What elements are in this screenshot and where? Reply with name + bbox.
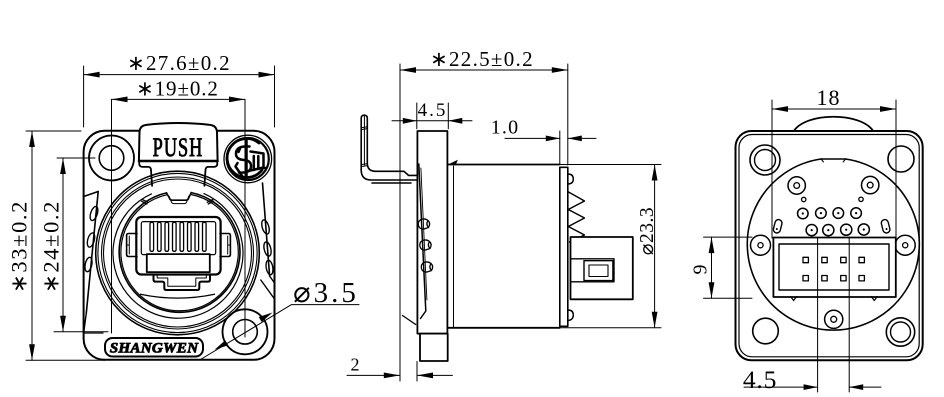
dim 9 line: [711, 237, 713, 298]
mounting hole bottom-right outer: [223, 309, 268, 354]
push tab bottom edge: [139, 160, 218, 162]
hook bar: [361, 115, 367, 170]
svg-text:∗22.5±0.2: ∗22.5±0.2: [430, 47, 534, 71]
svg-text:PUSH: PUSH: [153, 133, 204, 162]
dim 2 ext lines: [416, 362, 418, 382]
rj45 jack outer body: [136, 217, 220, 275]
rear block plug box: [584, 261, 613, 281]
rj45 pins: [150, 222, 206, 251]
rj45 lower face: [147, 254, 210, 272]
dim *22.5 line: [400, 69, 568, 71]
dim 1.0 ext left: [559, 131, 561, 164]
svg-text:9: 9: [690, 265, 712, 275]
svg-text:4.5: 4.5: [743, 365, 777, 394]
block bottom tick right: [871, 297, 877, 301]
body rear plate: [560, 167, 568, 326]
dim *22.5 / 2 ext left: [399, 64, 401, 381]
idc block inner: [779, 244, 889, 290]
push tab left arm: [139, 161, 152, 186]
arrow 22.5 left: [400, 67, 416, 73]
right wing diagonal: [263, 183, 270, 276]
arrow dia23.3 top: [652, 165, 658, 181]
bayonet notch inner line: [169, 196, 189, 204]
mounting hole top-left inner: [99, 146, 124, 171]
rear tiny circle right: [859, 197, 863, 201]
dim *19 line: [112, 98, 246, 100]
arrow 19 right: [229, 97, 245, 103]
dim *27.6 ext lines: [84, 66, 275, 127]
logo inner arc: [227, 139, 262, 178]
bayonet top notch: [167, 193, 192, 201]
flange bottom-left shoulder line: [84, 332, 104, 334]
rear tiny circle left: [802, 197, 806, 201]
dim *19 ext left through hole: [111, 99, 113, 333]
left rib 3: [84, 257, 93, 273]
hook bar ticks: [361, 127, 367, 167]
arrow 4.5r left: [804, 384, 818, 390]
plate inner slant lever: [419, 164, 426, 319]
dim 9 ext lines: [704, 237, 753, 298]
arrow 24 top: [60, 158, 66, 174]
bezel circle outer: [96, 171, 260, 335]
rj45 right latch slot: [228, 236, 231, 254]
dim *33 line: [31, 131, 33, 360]
left rib 1: [89, 206, 100, 222]
right rib 2: [263, 241, 273, 257]
right rib 1: [260, 219, 270, 235]
bayonet shell outer rim: [119, 193, 240, 313]
arrow 18 right: [880, 106, 896, 112]
plate rib 3: [421, 262, 432, 272]
arrow dia3.5 lower: [215, 340, 229, 350]
dim *24 ext lines: [54, 158, 108, 332]
dim 4.5 line: [392, 120, 472, 122]
arrow 27.6 right: [259, 72, 275, 78]
push tab right arm: [204, 161, 217, 186]
rear dome: [794, 117, 873, 131]
flange plate side: [417, 131, 447, 334]
rear hole top-left outer: [750, 145, 780, 175]
dim 1.0 line: [505, 137, 596, 139]
rear plate bottom bump: [568, 310, 574, 321]
push tab body: [139, 123, 218, 161]
plate rib 2: [420, 240, 431, 250]
block bottom tick left: [791, 297, 797, 301]
bayonet shell inner rim: [121, 194, 238, 310]
spring zigzag: [568, 192, 584, 242]
idc block outer: [773, 238, 895, 298]
idc pin squares row 2: [803, 276, 808, 281]
arrow 4.5 left: [403, 118, 417, 124]
dim *24 line: [62, 158, 64, 332]
plate bottom tab: [420, 334, 448, 361]
rear big circle flat notches: [821, 159, 846, 162]
rear hole top-left inner: [755, 150, 776, 171]
svg-text:⌀3.5: ⌀3.5: [293, 277, 359, 309]
dim 4.5 rear ext lines: [818, 238, 850, 393]
PUSH text: [153, 133, 204, 162]
rear screw right: [862, 176, 879, 193]
right slot oval: [881, 219, 891, 234]
left wing top edge: [84, 192, 99, 197]
rj45 bottom notch: [154, 275, 211, 291]
bezel circle outer inner line: [98, 173, 257, 332]
plate rib 1: [418, 219, 429, 229]
hook bend and leg: [361, 163, 417, 183]
svg-text:2: 2: [351, 355, 360, 375]
rj45 jack inner opening: [141, 222, 215, 255]
leader dia3.5: [201, 305, 360, 360]
rear big circle top flat: [821, 158, 846, 160]
arrow 9 top: [709, 237, 715, 253]
arrow 4.5 right: [448, 118, 462, 124]
logo ring: [227, 138, 269, 180]
svg-text:1.0: 1.0: [491, 117, 520, 139]
rear hole bottom-right outer: [886, 318, 914, 346]
arrow 2 right: [417, 373, 433, 379]
hook bar inner line: [363, 116, 365, 165]
rear plate top bump: [568, 174, 574, 184]
left slot oval: [773, 219, 783, 234]
mounting hole bottom-right inner: [233, 320, 258, 345]
rear screw left: [788, 177, 805, 194]
rear connector block side: [571, 237, 633, 299]
left rib 2: [86, 232, 96, 248]
arrow 4.5r right: [849, 384, 863, 390]
dim 4.5 ext lines: [417, 103, 449, 129]
svg-text:∗33±0.2: ∗33±0.2: [7, 200, 32, 293]
arrow 1.0 left: [546, 136, 560, 142]
rear big circle: [747, 159, 919, 330]
rear bottom screw: [825, 310, 843, 328]
idc pin squares row 1: [803, 257, 864, 281]
svg-text:∗27.6±0.2: ∗27.6±0.2: [127, 51, 231, 75]
pin dots row A: [802, 212, 865, 231]
flange outline front: [84, 131, 275, 360]
body cylinder: [447, 165, 559, 328]
pin circle row B: [806, 225, 817, 236]
svg-text:⌀23.3: ⌀23.3: [637, 207, 658, 255]
arrow 18 left: [772, 106, 788, 112]
body front face line: [453, 166, 455, 327]
dim 2 lines: [347, 374, 452, 376]
body top-left mini arrow: [449, 160, 458, 165]
dim dia23.3 ext lines: [560, 165, 661, 328]
dim *33 ext lines: [26, 131, 105, 360]
arrow 22.5 right: [552, 67, 568, 73]
bayonet left step: [142, 200, 148, 205]
plate inner slant lever second line: [421, 168, 427, 300]
right wing bottom chamfer: [261, 276, 275, 299]
arrow 33 top: [29, 131, 35, 147]
rear side screw left: [751, 235, 771, 255]
rj45 left latch slot: [127, 236, 130, 254]
right rib 3: [265, 260, 274, 276]
mounting hole top-left outer: [89, 136, 134, 181]
svg-text:∗24±0.2: ∗24±0.2: [39, 200, 64, 293]
rj45 left latch: [127, 234, 137, 257]
svg-text:∗19±0.2: ∗19±0.2: [136, 76, 219, 100]
dim dia23.3 line: [654, 165, 656, 328]
left wing diagonal: [86, 192, 98, 314]
svg-text:18: 18: [817, 85, 841, 110]
pin circle row A1: [798, 208, 870, 236]
arrow 19 left: [112, 97, 128, 103]
bayonet right step: [207, 200, 213, 205]
rear hole top-right: [888, 146, 914, 172]
rear block inner step: [571, 259, 615, 282]
label plate SHANGWEN: [105, 338, 203, 357]
svg-text:4.5: 4.5: [418, 100, 448, 121]
dim 4.5 rear line: [744, 386, 881, 388]
arrow dia3.5 upper: [259, 313, 273, 323]
arrow dia23.3 bottom: [652, 312, 658, 328]
rear side screw right: [895, 235, 915, 255]
dim 18 ext lines: [772, 100, 896, 238]
rear block plug box inner: [589, 265, 608, 277]
dim *19 ext right through logo: [244, 99, 246, 337]
bezel circle third (arc): [113, 194, 243, 319]
shell bottom flat arc: [141, 294, 215, 298]
arrow 27.6 left: [84, 72, 100, 78]
bezel ring second inner: [104, 179, 252, 327]
arrow 1.0 right: [568, 136, 582, 142]
dim *22.5 ext right: [567, 64, 569, 165]
rj45 bottom notch inner line: [157, 276, 206, 287]
arrow 24 bottom: [60, 316, 66, 332]
arrow 2 left: [384, 373, 400, 379]
arrow 9 bottom: [709, 282, 715, 298]
rear flange inner: [739, 135, 919, 357]
svg-text:SHANGWEN: SHANGWEN: [110, 339, 199, 356]
logo outer circle: [224, 135, 272, 183]
rear flange outer: [736, 131, 923, 360]
dim 18 line: [772, 108, 896, 110]
rear hole bottom-left: [753, 318, 779, 344]
rj45 right latch: [220, 234, 230, 257]
arrow 33 bottom: [29, 344, 35, 360]
dim *27.6 line: [84, 74, 275, 76]
left wing bottom chamfer: [84, 313, 86, 331]
logo monogram: [236, 141, 267, 178]
rear hole bottom-right inner: [891, 322, 911, 342]
latch lever tip chamfer: [403, 316, 416, 325]
bezel ring second outer: [102, 177, 254, 329]
